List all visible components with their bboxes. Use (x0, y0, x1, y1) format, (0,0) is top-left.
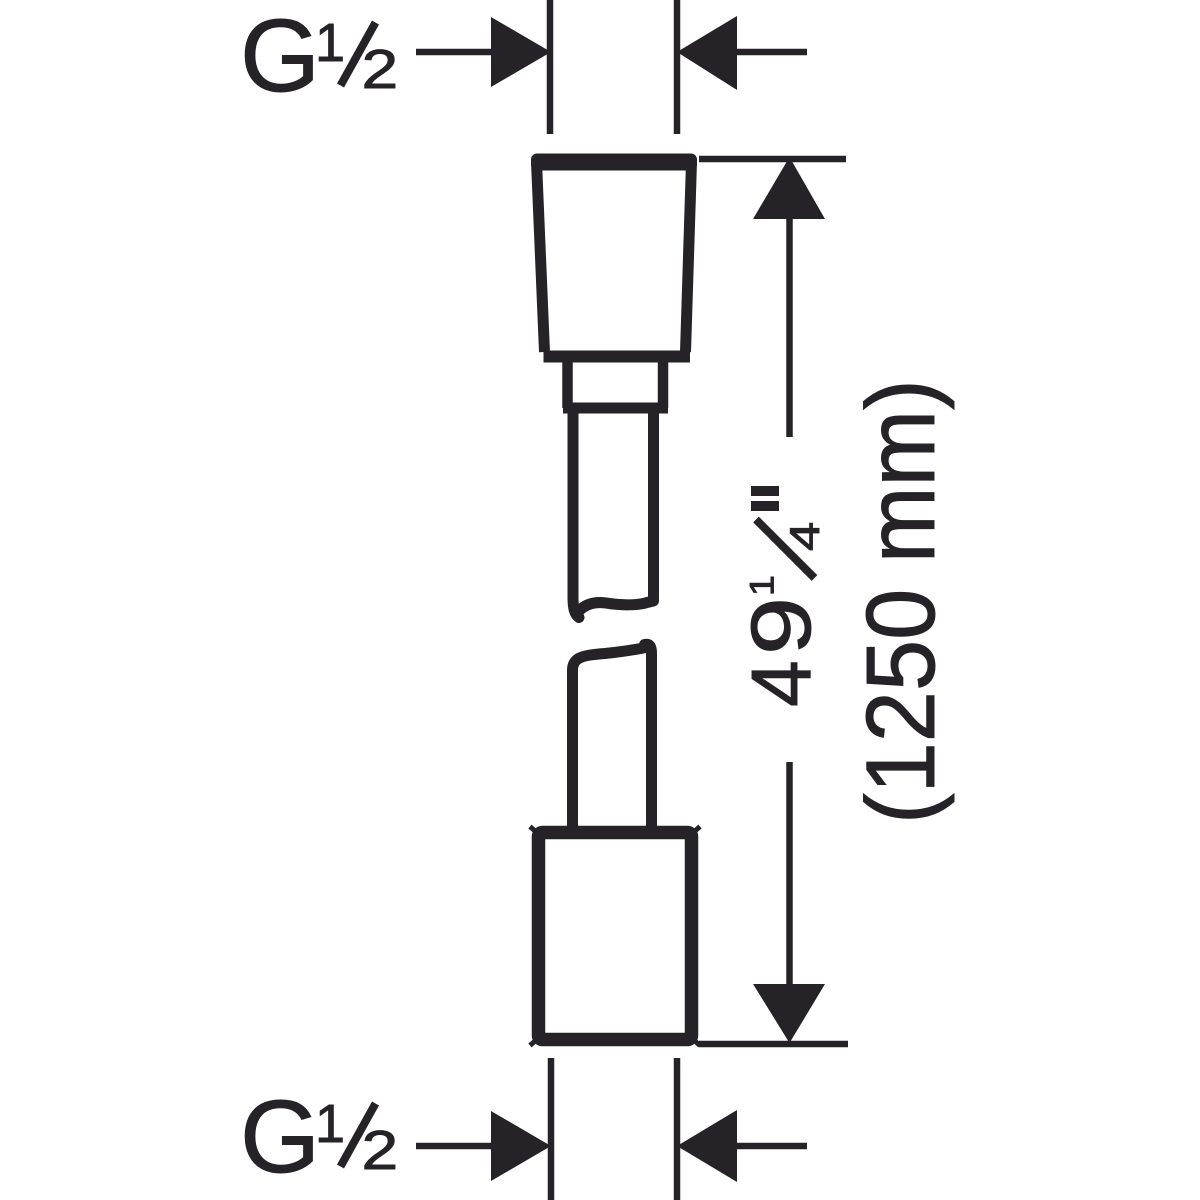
svg-text:1: 1 (315, 13, 345, 73)
svg-text:G: G (240, 0, 320, 113)
right dimension label 49 1/4 inch (734, 486, 829, 707)
svg-text:1: 1 (315, 1094, 345, 1154)
block corner tick bottom-left (530, 1042, 535, 1046)
svg-text:4: 4 (782, 522, 829, 551)
right dim arrow up (753, 157, 825, 219)
right dim horizontal bottom (699, 1041, 848, 1048)
hose nut cone left slant (537, 162, 545, 352)
right dim horizontal top (699, 156, 846, 163)
bottom arrow pointing right (491, 1111, 551, 1181)
right dim arrow down (753, 984, 825, 1043)
bottom arrow pointing left (677, 1110, 737, 1182)
hose nut cone bottom bar (544, 351, 691, 363)
right dimension label 1250 mm (847, 379, 956, 824)
bottom leader line right (737, 1143, 807, 1150)
top G half label (240, 0, 398, 113)
bottom leader line left (416, 1143, 492, 1150)
svg-text:(1250 mm): (1250 mm) (847, 379, 956, 824)
nut neck bottom bar (563, 403, 668, 414)
right dim vertical lower segment (786, 762, 793, 988)
top arrow pointing left (677, 16, 737, 90)
right dim vertical upper segment (786, 215, 793, 437)
bottom G half label (240, 1079, 398, 1194)
nut neck right (658, 355, 669, 408)
upper hose break wave (578, 408, 654, 612)
lower hose right wall break bump (645, 644, 652, 827)
block corner tick bottom-right (696, 1042, 701, 1046)
svg-text:2: 2 (362, 38, 399, 100)
lower hose break wave and left wall (573, 648, 647, 828)
block corner tick top-right (696, 827, 701, 831)
top extension line left (547, 0, 554, 134)
svg-text:1: 1 (743, 575, 781, 596)
svg-text:2: 2 (362, 1119, 399, 1181)
svg-text:4: 4 (734, 660, 828, 707)
hose nut cone right slant (686, 162, 692, 352)
upper hose left wall with break hook (573, 408, 579, 618)
block corner tick top-left (530, 827, 535, 831)
nut neck left (562, 355, 573, 408)
svg-text:G: G (240, 1079, 320, 1194)
bottom extension line right (674, 1058, 681, 1200)
bottom connector block (539, 833, 692, 1040)
bottom extension line left (548, 1058, 555, 1200)
top arrow pointing right (491, 17, 551, 87)
top leader line left (416, 49, 492, 56)
top extension line right (674, 0, 681, 134)
top leader line right (737, 49, 807, 56)
svg-text:9: 9 (735, 597, 829, 655)
hose nut cone top bar (531, 154, 697, 171)
